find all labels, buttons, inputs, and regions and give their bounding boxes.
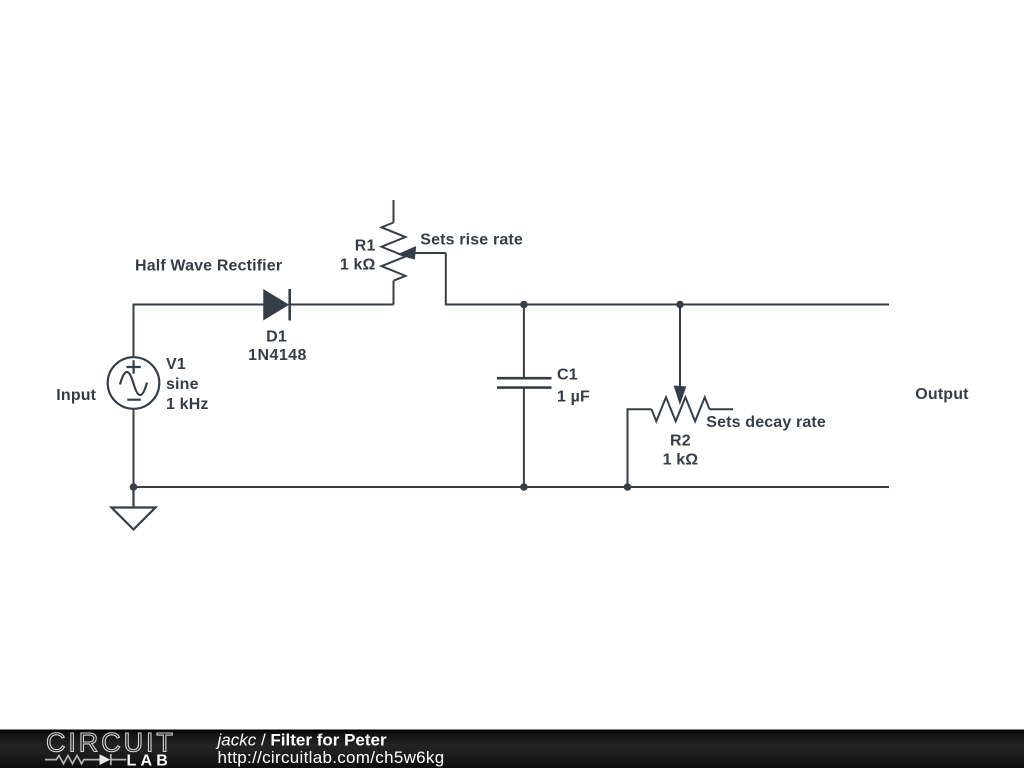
svg-text:1 kHz: 1 kHz <box>166 396 209 413</box>
capacitor C1 <box>497 305 552 488</box>
voltage source V1 <box>108 357 160 409</box>
wire from D1 cathode to R1 bottom terminal <box>290 304 394 306</box>
svg-text:1 kΩ: 1 kΩ <box>340 257 376 274</box>
R2 wiper wire <box>679 305 681 390</box>
svg-text:http://circuitlab.com/ch5w6kg: http://circuitlab.com/ch5w6kg <box>218 748 445 767</box>
junction node at R2 bottom rail <box>624 483 632 491</box>
svg-text:R1: R1 <box>355 238 376 255</box>
svg-text:Output: Output <box>915 386 969 403</box>
wire from V1 top up and right to D1 anode <box>134 305 265 358</box>
potentiometer R2 <box>628 305 734 488</box>
wire from R1 wiper corner down and right along top rail to output <box>446 253 889 305</box>
svg-text:V1: V1 <box>166 356 186 373</box>
svg-text:Sets rise rate: Sets rise rate <box>420 231 523 248</box>
wire from V1 bottom down to ground node <box>133 409 135 487</box>
svg-text:Half Wave Rectifier: Half Wave Rectifier <box>135 257 282 274</box>
logo resistor-diode symbol <box>45 754 126 765</box>
svg-text:jackc / Filter for Peter: jackc / Filter for Peter <box>216 731 387 750</box>
footer bar <box>0 730 1024 768</box>
svg-text:1 kΩ: 1 kΩ <box>663 451 699 468</box>
svg-text:LAB: LAB <box>127 753 172 768</box>
wire bottom rail from ground node to output return <box>134 486 890 488</box>
svg-text:Sets decay rate: Sets decay rate <box>706 414 826 431</box>
svg-text:C1: C1 <box>557 366 578 383</box>
svg-text:1N4148: 1N4148 <box>248 347 307 364</box>
R1 wiper arrowhead <box>398 247 415 259</box>
junction node at C1 bottom rail <box>520 483 528 491</box>
diode D1 <box>264 289 290 321</box>
potentiometer R1 <box>382 200 446 305</box>
svg-text:R2: R2 <box>670 433 691 450</box>
svg-text:sine: sine <box>166 376 199 393</box>
ground <box>112 487 156 530</box>
junction node at R2 wiper on top rail <box>676 301 684 309</box>
junction node at V1 ground <box>130 483 138 491</box>
R1 wiper wire <box>414 252 446 254</box>
svg-text:Input: Input <box>56 387 96 404</box>
svg-text:D1: D1 <box>266 329 287 346</box>
svg-text:1 µF: 1 µF <box>557 388 590 405</box>
junction node at C1 top rail <box>520 301 528 309</box>
R2 wiper arrowhead <box>674 386 685 404</box>
